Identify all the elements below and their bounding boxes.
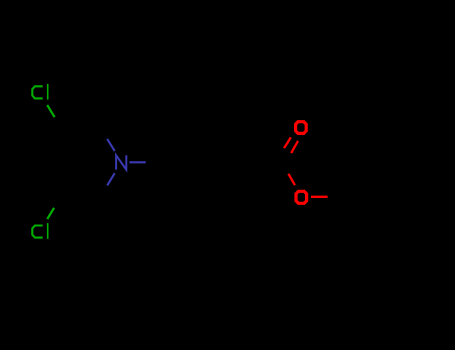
bond O-C(phenyl) (red half) bbox=[311, 196, 328, 198]
bond Cl-CH2 (bottom, green half) bbox=[47, 208, 54, 219]
atom label O (ester oxygen) bbox=[296, 191, 307, 203]
bond N-C1(ring) (blue half) bbox=[129, 161, 145, 163]
atom label Cl (bottom chloro) bbox=[32, 223, 47, 239]
double bond C=O main line (red half) bbox=[291, 141, 298, 153]
bond Cl-CH2 (top, green half) bbox=[47, 105, 54, 117]
atom label O (carbonyl oxygen) bbox=[296, 122, 307, 134]
bond C(=O)-O ester (red half) bbox=[288, 174, 295, 185]
atom label Cl (top chloro) bbox=[32, 84, 47, 100]
atom label N (amine nitrogen) bbox=[116, 155, 126, 169]
bond CH2-N (upper, blue half) bbox=[107, 139, 115, 151]
double bond C=O secondary line (red half) bbox=[284, 137, 291, 148]
bond CH2-N (lower, blue half) bbox=[107, 173, 115, 185]
